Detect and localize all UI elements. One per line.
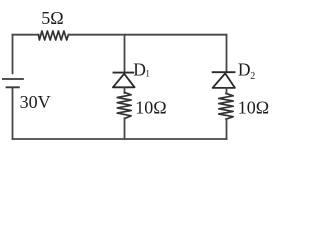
resistor R2 10ohm vertical zigzag (117, 92, 131, 118)
wire: below R2 to bottom rail (124, 118, 126, 139)
svg-text:5Ω: 5Ω (41, 8, 63, 28)
svg-text:1: 1 (145, 69, 150, 79)
wire: between D2 and R3 (226, 88, 228, 94)
svg-text:D: D (238, 60, 251, 80)
svg-text:30V: 30V (20, 92, 51, 112)
diode D2 triangle (anode, pointing up) (213, 73, 235, 88)
wire: left side upper segment (corner down to battery plate) (12, 35, 14, 74)
wire: bottom rail (13, 138, 227, 140)
wire: below R3 to bottom-right corner (226, 119, 228, 139)
diode D1 cathode bar (114, 72, 134, 74)
battery V1 short plate (negative) (6, 86, 20, 88)
wire: right branch from top-right corner down to diode D2 (226, 35, 228, 72)
svg-text:2: 2 (250, 71, 255, 82)
wire: top-left segment from corner to resistor R1 (13, 34, 39, 36)
svg-text:D: D (133, 59, 146, 79)
wire: top segment from resistor R1 to top-right corner (68, 34, 226, 36)
diode D1 triangle (anode, pointing up) (113, 74, 135, 88)
diode D2 cathode bar (213, 71, 235, 73)
wire: between D1 and R2 (124, 87, 126, 93)
svg-text:10Ω: 10Ω (238, 98, 269, 118)
wire: left side lower segment (battery down to bottom corner) (12, 88, 14, 139)
resistor R1 5ohm horizontal zigzag (39, 31, 69, 40)
resistor R3 10ohm vertical zigzag (219, 93, 234, 119)
battery V1 long plate (positive) (2, 78, 24, 80)
wire: middle branch from top rail down to diode D1 (124, 35, 126, 73)
svg-text:10Ω: 10Ω (135, 97, 166, 117)
